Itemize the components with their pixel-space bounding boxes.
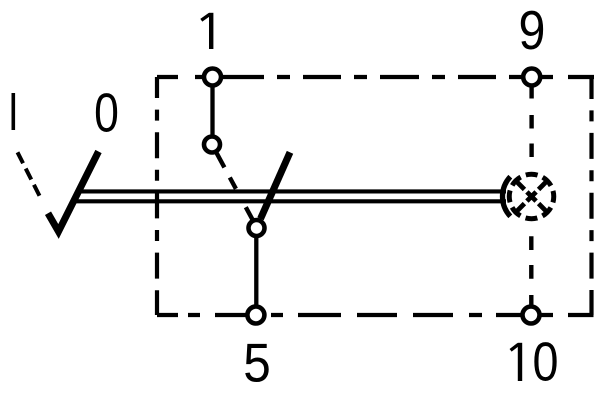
enclosure border top edge (dash-dot) xyxy=(157,75,594,79)
lever tip (solid) xyxy=(48,152,99,232)
actuator bar lower line xyxy=(72,199,506,203)
actuator bar upper line xyxy=(76,189,506,193)
lever position I (dashed) xyxy=(18,152,40,196)
fixed contact under terminal 1 xyxy=(204,137,220,153)
svg-text:5: 5 xyxy=(243,333,271,394)
enclosure border left edge (dash-dot) xyxy=(155,77,159,315)
wire lamp to terminal 10 (dashed) xyxy=(529,236,533,306)
fixed contact above terminal 5 xyxy=(249,220,265,236)
wire terminal 1 to fixed contact xyxy=(210,77,214,145)
enclosure border bottom edge (dash-dot) xyxy=(157,313,594,317)
terminal 10 xyxy=(523,307,540,324)
lamp L: dashed X cross stroke NE-SW xyxy=(516,181,548,213)
label I xyxy=(12,93,16,130)
lamp L: dashed X cross stroke NW-SE xyxy=(516,181,548,213)
lamp L: reflector arc xyxy=(502,177,510,217)
svg-text:0: 0 xyxy=(94,82,119,144)
enclosure border right edge (dash-dot) xyxy=(589,77,593,315)
moving blade (position 0) xyxy=(261,152,291,219)
wire terminal 9 to lamp (dashed) xyxy=(529,88,533,173)
lamp L: dashed bulb circle xyxy=(509,174,554,219)
label 10: digit 1 xyxy=(511,343,520,381)
label 1 (terminal 1) xyxy=(201,13,211,49)
svg-text:9: 9 xyxy=(519,0,546,60)
blade alternate position I (dashed line contact 1 to contact 5) xyxy=(217,153,253,219)
terminal 9 xyxy=(523,69,540,86)
terminal 5 xyxy=(247,307,264,324)
terminal 1 xyxy=(204,69,221,86)
wire fixed contact to terminal 5 xyxy=(254,228,258,315)
svg-text:0: 0 xyxy=(532,331,558,392)
